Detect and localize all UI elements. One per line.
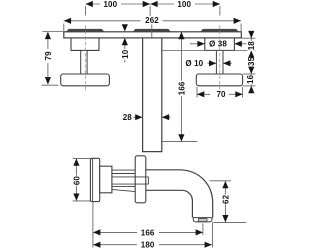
svg-text:60: 60 (72, 176, 81, 186)
svg-text:70: 70 (216, 90, 226, 99)
svg-text:28: 28 (123, 113, 133, 122)
svg-text:18: 18 (247, 41, 256, 51)
svg-text:262: 262 (145, 16, 159, 25)
svg-text:Ø 10: Ø 10 (185, 59, 203, 68)
svg-text:100: 100 (103, 0, 117, 9)
svg-text:180: 180 (141, 241, 155, 250)
svg-text:166: 166 (177, 81, 186, 95)
svg-text:16: 16 (246, 74, 255, 84)
svg-text:35: 35 (247, 56, 256, 66)
svg-text:100: 100 (177, 0, 191, 9)
svg-text:166: 166 (141, 228, 155, 237)
svg-text:10: 10 (121, 49, 130, 59)
svg-text:Ø 38: Ø 38 (209, 40, 227, 49)
svg-text:79: 79 (44, 51, 53, 61)
svg-text:62: 62 (221, 194, 230, 204)
